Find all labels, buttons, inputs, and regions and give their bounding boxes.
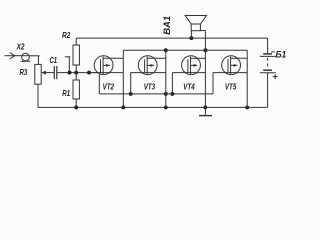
resistor R2 (73, 45, 79, 65)
node junction VT2 gate (87, 71, 91, 75)
node VT4 gate riser base on rail (170, 92, 174, 96)
svg-text:X2: X2 (16, 43, 25, 52)
node R1 bottom (74, 105, 78, 109)
speaker BA1 (185, 16, 206, 39)
node junction R2/R1 (74, 71, 78, 75)
capacitor C1 (53, 66, 55, 79)
wire VT4 riser speaker to bus (204, 31, 206, 108)
node speaker right / VT4 drain on H2 (203, 48, 207, 52)
wire R1 top lead (75, 73, 77, 80)
node VT3 riser crossing on rail (164, 92, 168, 96)
resistor R3 (variable) (35, 64, 41, 84)
resistor R1 (73, 80, 79, 99)
wire bias rail C1 to VT2 gate (57, 72, 98, 74)
node junction X2 riser (68, 71, 72, 75)
transistor VT5 (213, 56, 247, 94)
node speaker left terminal (189, 36, 193, 40)
node VT5 riser bottom (245, 105, 249, 109)
wire source rail (99, 93, 213, 95)
transistor VT4 (172, 56, 205, 94)
wire VT3 riser H2 to bus (165, 50, 167, 107)
node VT4 riser / ground (203, 105, 207, 109)
wire R3 top lead (37, 56, 39, 65)
node VT2 riser bottom (121, 105, 125, 109)
wire R1 bottom lead (75, 99, 77, 107)
svg-text:R3: R3 (20, 68, 28, 77)
wire X2 tip line (29, 55, 39, 57)
wire stub to bias riser (65, 56, 71, 58)
svg-text:R1: R1 (62, 89, 70, 98)
wire bottom bus (38, 106, 268, 108)
wire top bus H1 (76, 37, 267, 39)
wire R2 bottom lead (75, 65, 77, 73)
wire riser down to bias rail (68, 57, 70, 73)
node VT3 gate riser base on rail (129, 92, 133, 96)
wire VT2 riser H2 to bus (122, 50, 124, 107)
R3 wiper arrow (42, 72, 47, 74)
connector X2 (5, 53, 31, 62)
svg-text:VT5: VT5 (225, 83, 237, 92)
wire rail wiper to C1 (47, 72, 54, 74)
node VT3 drain riser on H2 (164, 48, 168, 52)
svg-text:VT2: VT2 (103, 83, 115, 92)
wire VT5 riser H2 to bus (246, 50, 248, 107)
svg-text:VT3: VT3 (144, 83, 156, 92)
svg-text:C1: C1 (50, 56, 58, 65)
svg-text:BA1: BA1 (162, 16, 172, 35)
transistor VT2 (89, 56, 123, 94)
wire R2 top riser (75, 38, 77, 45)
label plus (273, 74, 278, 79)
wire R3 bottom lead (37, 84, 39, 107)
wire drain bus H2 (123, 49, 247, 51)
ground (204, 107, 206, 115)
transistor VT3 (131, 56, 166, 94)
label minus (271, 51, 275, 53)
svg-text:Б1: Б1 (276, 49, 287, 60)
svg-text:VT4: VT4 (183, 83, 195, 92)
svg-text:R2: R2 (62, 31, 71, 40)
battery B1 (260, 38, 276, 107)
node VT3 riser bottom (164, 105, 168, 109)
